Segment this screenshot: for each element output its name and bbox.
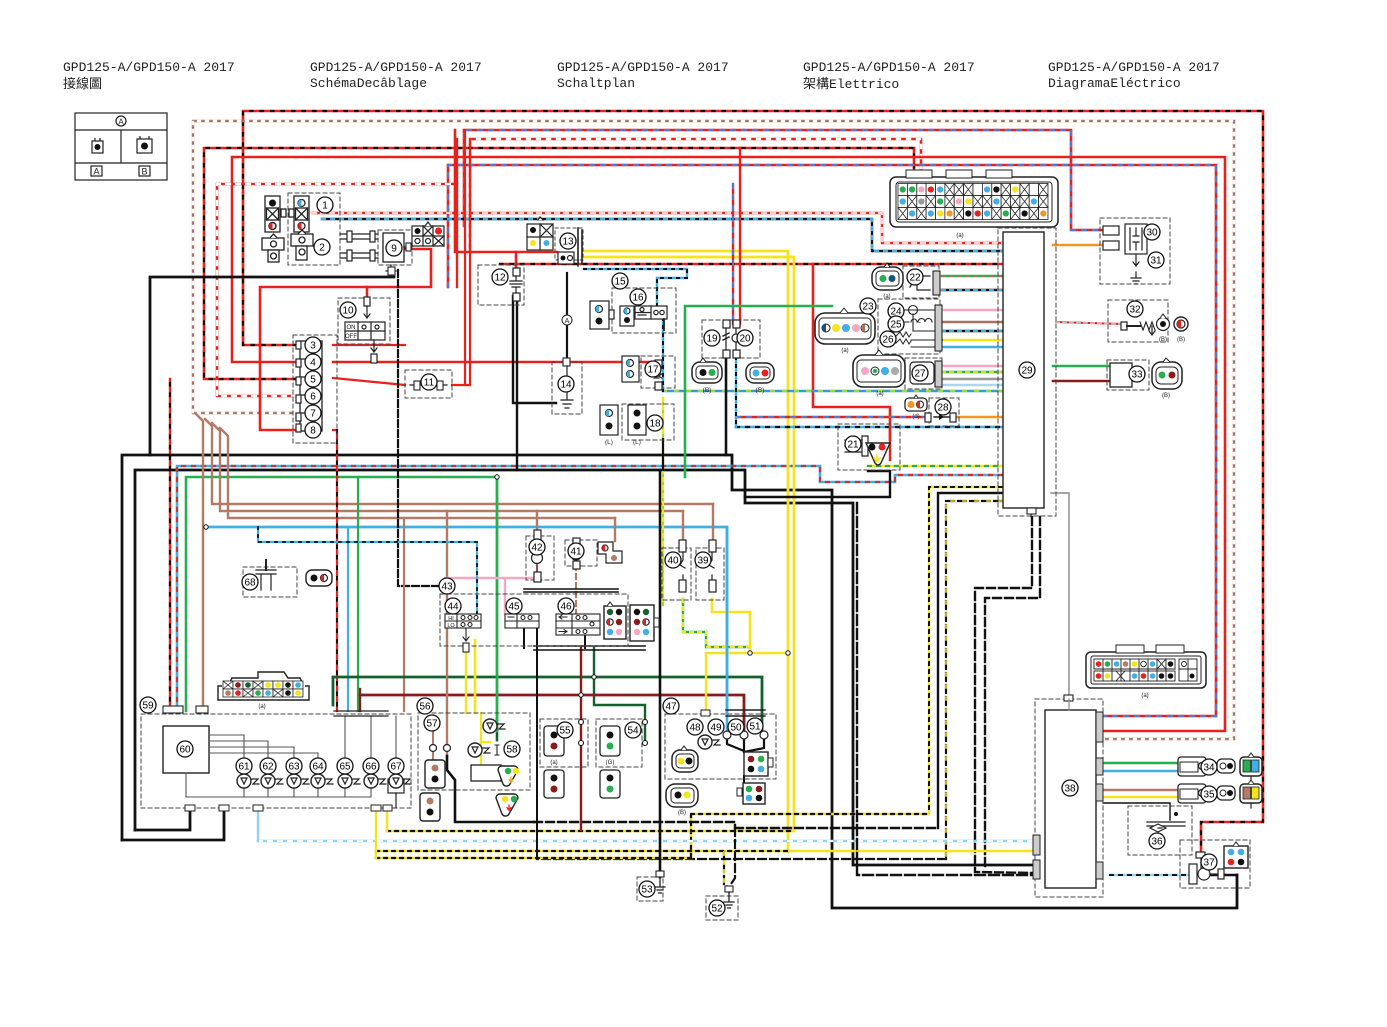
wire L/R lightblue long y=466	[177, 466, 1002, 711]
svg-text:36: 36	[1151, 837, 1163, 848]
svg-text:37: 37	[1203, 858, 1215, 869]
svg-text:58: 58	[506, 745, 518, 756]
relay 30/31	[1100, 218, 1170, 284]
connector grid right of 9	[412, 222, 444, 246]
svg-text:53: 53	[641, 885, 653, 896]
svg-text:11: 11	[424, 378, 435, 389]
bottom pins of 59	[371, 805, 381, 811]
wire red net item9 to item10 / items3-8	[260, 249, 431, 430]
svg-text:(L): (L)	[633, 439, 641, 446]
item 43 dashed box	[440, 594, 628, 646]
green x=497 into 58	[496, 713, 498, 726]
37 lightblue	[1110, 874, 1193, 877]
item 17 diode	[641, 356, 675, 388]
wire green item23 to down	[685, 306, 832, 477]
black 45 down / bus bars	[524, 627, 585, 859]
red to 21 triangle	[889, 425, 891, 460]
wire R/B2 y=148	[204, 148, 914, 379]
item 27	[905, 358, 942, 389]
svg-text:1: 1	[322, 201, 328, 212]
yellow pair from item13	[583, 251, 788, 852]
svg-text:A: A	[565, 318, 570, 325]
svg-text:63: 63	[288, 762, 300, 773]
wire red item13 feed y=252	[455, 130, 557, 252]
item 28	[929, 398, 959, 426]
wire L/B from item1 y=219	[322, 219, 1003, 251]
items 55/54	[540, 719, 588, 767]
wire ECU bottom bundle	[975, 517, 1036, 873]
svg-text:17: 17	[647, 365, 659, 376]
lightblue-dash to 44	[258, 527, 477, 614]
wire ECU right to item33	[1053, 365, 1110, 368]
oval connectors in 47	[666, 746, 698, 816]
svg-text:62: 62	[262, 762, 274, 773]
2x2 connector near 37	[1224, 842, 1248, 868]
brown drops to fuses/41/42/57	[683, 504, 713, 550]
svg-text:(a): (a)	[956, 233, 963, 239]
legend battery box	[75, 113, 167, 180]
wire R/W y=139	[470, 139, 921, 252]
svg-text:26: 26	[882, 335, 894, 346]
ECU box 29	[998, 228, 1056, 516]
svg-text:23: 23	[862, 302, 874, 313]
black x=660 long	[659, 470, 662, 871]
wire orange relay30	[1053, 244, 1105, 246]
svg-text:(a): (a)	[258, 704, 265, 710]
svg-text:(B): (B)	[1159, 337, 1167, 343]
svg-text:28: 28	[937, 403, 949, 414]
wires ECU left bundle from 27	[942, 365, 1003, 367]
svg-text:66: 66	[365, 762, 377, 773]
black 47 cluster pins	[727, 739, 764, 752]
black bus bottom-left hooks	[122, 808, 224, 840]
wire yellow-dot y=814	[376, 814, 928, 858]
svg-text:39: 39	[697, 556, 709, 567]
item 11 fuse jumper	[405, 370, 452, 398]
svg-text:41: 41	[570, 547, 582, 558]
meter cells	[223, 681, 303, 710]
wire R/W from item1 y=213	[312, 213, 1003, 243]
svg-text:59: 59	[142, 701, 154, 712]
wire lightblue item13 to 15/17	[584, 269, 687, 307]
38 left pin bars	[1033, 835, 1040, 855]
item 14 ground	[552, 362, 582, 414]
oval connector (a) above 22	[872, 263, 903, 300]
lightblue main y=527	[205, 527, 727, 712]
wire R/L y=130 to relay30	[464, 130, 1105, 230]
svg-text:44: 44	[447, 602, 459, 613]
wires ECU left bundle from 22	[942, 275, 1003, 277]
oval connectors below 19/20	[692, 358, 774, 394]
black y=277 from x150 to item9	[150, 277, 394, 455]
wire black-dash y=828	[534, 822, 939, 828]
lamp symbols 61-67	[237, 774, 411, 788]
svg-text:65: 65	[339, 762, 351, 773]
item 12 capacitor	[478, 265, 524, 305]
svg-text:8: 8	[310, 426, 316, 437]
svg-text:10: 10	[342, 306, 354, 317]
item 22	[903, 266, 939, 298]
meter feed group2	[333, 430, 337, 711]
black bus y=470	[135, 470, 1036, 865]
svg-text:LO: LO	[447, 623, 455, 629]
2x2 connectors right in 47	[737, 752, 773, 804]
items 39/40 fuses	[662, 548, 691, 600]
wires ECU left bundle from 23-26	[942, 309, 1003, 311]
wire R/B top bus y=111	[243, 111, 1263, 852]
connector pair left of item1	[262, 196, 313, 262]
item 44 switch	[445, 614, 481, 652]
bottom connector (a)	[1086, 645, 1206, 688]
wire yellow box59 drops	[376, 808, 387, 858]
svg-text:(a): (a)	[841, 348, 848, 354]
wire red jumper to 19/20	[733, 148, 740, 324]
svg-text:(B): (B)	[756, 387, 765, 394]
svg-text:32: 32	[1129, 305, 1141, 316]
wire yellow y=831	[387, 830, 794, 833]
oval connector below 27	[853, 350, 905, 397]
svg-text:OFF: OFF	[345, 334, 357, 340]
svg-text:(B): (B)	[703, 387, 712, 394]
black bus y=455	[122, 455, 1237, 908]
wires into top of box59	[166, 711, 200, 714]
T connectors below	[262, 238, 284, 250]
thin wires from box60 to lamps	[186, 711, 396, 797]
long blue/green-dash y=391	[663, 390, 1003, 393]
svg-text:57: 57	[426, 719, 438, 730]
item 9 starter relay	[378, 230, 412, 265]
wire orange item28 to ECU	[957, 416, 1003, 418]
wire green long y=477	[186, 477, 497, 711]
black x=659 to gnd53	[659, 871, 662, 877]
36 thin black	[1103, 803, 1170, 820]
svg-text:3: 3	[310, 341, 316, 352]
svg-text:61: 61	[238, 762, 250, 773]
svg-text:(G): (G)	[606, 760, 615, 766]
item 21 horn	[838, 424, 900, 470]
svg-text:60: 60	[179, 745, 191, 756]
wire black item18 down	[662, 439, 664, 470]
svg-text:9: 9	[391, 244, 397, 255]
item 36	[1128, 806, 1192, 855]
38 right side wires	[1096, 762, 1180, 765]
svg-text:40: 40	[667, 556, 679, 567]
item 45 switch	[505, 614, 539, 628]
item 42 fuse	[526, 536, 554, 580]
items 19/20 fuses	[702, 320, 760, 358]
header titles	[63, 60, 235, 93]
wire black 19/20 down	[725, 357, 728, 455]
grounds 52/53	[637, 877, 663, 901]
svg-text:51: 51	[749, 722, 761, 733]
svg-text:35: 35	[1203, 790, 1215, 801]
38 right pin bars	[1096, 712, 1103, 742]
brown-dash 41 to 46	[575, 565, 577, 614]
pink wire 42-45	[445, 566, 537, 614]
svg-text:49: 49	[710, 723, 722, 734]
wire black item13 to item14	[566, 273, 568, 362]
item 47 cluster	[665, 714, 776, 779]
wire green/yellow item17 down to 46	[662, 398, 664, 605]
svg-text:56: 56	[419, 702, 431, 713]
item 56/57/58 cluster	[418, 713, 530, 790]
svg-text:(B): (B)	[678, 810, 686, 816]
more layers appended below	[258, 130, 1237, 888]
svg-text:46: 46	[560, 602, 572, 613]
svg-text:47: 47	[665, 702, 677, 713]
wire red x457 y139-287	[456, 139, 458, 287]
long R/L dash y=417	[736, 416, 927, 418]
item 18 connectors	[622, 404, 674, 440]
ECU connector (a) top	[890, 170, 1058, 227]
svg-text:67: 67	[390, 762, 402, 773]
29 green dash wire from 21/22	[939, 339, 942, 341]
yellow fuse39 bottom	[706, 599, 788, 653]
wire lightblue y=841	[258, 840, 1036, 843]
wire R/L y=165	[448, 165, 1216, 716]
svg-text:13: 13	[562, 237, 574, 248]
svg-text:14: 14	[560, 380, 572, 391]
svg-text:4: 4	[310, 358, 316, 369]
dark green long y=677	[333, 677, 762, 735]
item 33	[1107, 360, 1149, 390]
wire brown dash-dot y=121	[193, 121, 1234, 739]
wire R/B mid y=264	[500, 263, 1003, 266]
svg-text:29: 29	[1021, 366, 1033, 377]
svg-text:31: 31	[1150, 256, 1162, 267]
small 2cell connector (d)	[905, 395, 927, 420]
svg-text:42: 42	[531, 543, 543, 554]
item 2 to 9 cable	[340, 231, 378, 261]
item 37 valve	[1180, 840, 1250, 888]
svg-text:(B): (B)	[1162, 393, 1170, 399]
svg-text:16: 16	[632, 293, 644, 304]
56 interior wires	[433, 728, 447, 760]
svg-text:(L): (L)	[605, 439, 613, 446]
svg-text:(B): (B)	[1177, 337, 1185, 343]
svg-text:34: 34	[1203, 763, 1215, 774]
wire yellow y=851	[376, 850, 1036, 853]
item 68	[243, 567, 297, 597]
meter connector trapezoid	[218, 672, 309, 700]
yellow x=475 56	[474, 640, 477, 713]
svg-text:54: 54	[627, 726, 639, 737]
svg-text:(d): (d)	[912, 414, 919, 420]
dark red long y=695	[360, 695, 744, 735]
wire red item12 drop	[515, 252, 518, 268]
box 1/2 dashed	[288, 193, 340, 265]
wire red items3-8 right links	[333, 362, 650, 368]
svg-text:2: 2	[319, 243, 325, 254]
svg-text:(a): (a)	[876, 391, 883, 397]
svg-text:12: 12	[494, 273, 506, 284]
item 13 connector + regulator	[527, 217, 583, 266]
svg-text:15: 15	[614, 277, 626, 288]
wire black item12 caps down	[513, 296, 556, 470]
warning triangles	[496, 766, 519, 816]
wire solid red y=157	[232, 157, 1225, 731]
svg-text:55: 55	[559, 726, 571, 737]
svg-text:ON: ON	[347, 325, 356, 331]
svg-text:HI: HI	[448, 616, 454, 622]
svg-text:38: 38	[1064, 784, 1076, 795]
svg-text:21: 21	[847, 440, 859, 451]
yellow from 44	[465, 652, 467, 713]
svg-text:50: 50	[730, 723, 742, 734]
svg-text:45: 45	[508, 602, 520, 613]
svg-text:(a): (a)	[1141, 693, 1148, 699]
svg-text:B: B	[141, 167, 147, 177]
wire R dash y=184	[217, 184, 457, 396]
svg-text:52: 52	[711, 904, 723, 915]
wire L/B 19/20 down to y427	[735, 357, 737, 427]
wire red mid drop x465/470	[465, 130, 470, 385]
svg-text:5: 5	[310, 375, 316, 386]
svg-text:A: A	[93, 167, 99, 177]
svg-text:30: 30	[1146, 228, 1158, 239]
item 46 switch	[556, 614, 600, 635]
box 38	[1035, 699, 1103, 897]
svg-text:20: 20	[739, 334, 751, 345]
svg-text:A: A	[118, 118, 124, 127]
svg-text:64: 64	[312, 762, 324, 773]
svg-text:48: 48	[689, 723, 701, 734]
svg-text:(a): (a)	[550, 760, 557, 766]
long lightblue/black y=427	[736, 426, 1003, 429]
svg-text:43: 43	[441, 582, 453, 593]
big oval connector (a) left of 23	[815, 308, 875, 354]
brown bundle y=504/511/518	[196, 414, 203, 711]
black thick from 56	[447, 756, 534, 822]
item 32	[1108, 300, 1168, 342]
items 3-8 fuse column	[293, 335, 337, 443]
svg-text:68: 68	[244, 578, 256, 589]
svg-text:27: 27	[914, 369, 926, 380]
svg-text:6: 6	[310, 392, 316, 403]
blue drop x=727 to 47	[726, 527, 729, 735]
svg-text:19: 19	[706, 334, 718, 345]
item 41 fuse	[565, 540, 597, 566]
connector grids right of 46	[604, 602, 659, 641]
svg-text:18: 18	[649, 419, 661, 430]
svg-text:25: 25	[890, 320, 902, 331]
svg-text:7: 7	[310, 409, 316, 420]
svg-text:33: 33	[1131, 370, 1143, 381]
yellow drop to 48 lamp	[705, 653, 707, 714]
items 34/35 plugs	[1178, 753, 1262, 808]
wire gray antenna	[1051, 493, 1069, 699]
wire black dash item9 down to 43	[398, 270, 440, 586]
red vertical x=813 down to y407	[813, 264, 890, 440]
green to fuse40 bottom	[683, 599, 750, 647]
item 10 main switch	[338, 298, 390, 344]
green bright long vertical x=497	[496, 477, 499, 740]
items 23-26 box	[878, 299, 940, 354]
items 15/16	[612, 288, 676, 333]
svg-text:22: 22	[909, 273, 921, 284]
wire black-dash 52 drop	[724, 828, 735, 888]
